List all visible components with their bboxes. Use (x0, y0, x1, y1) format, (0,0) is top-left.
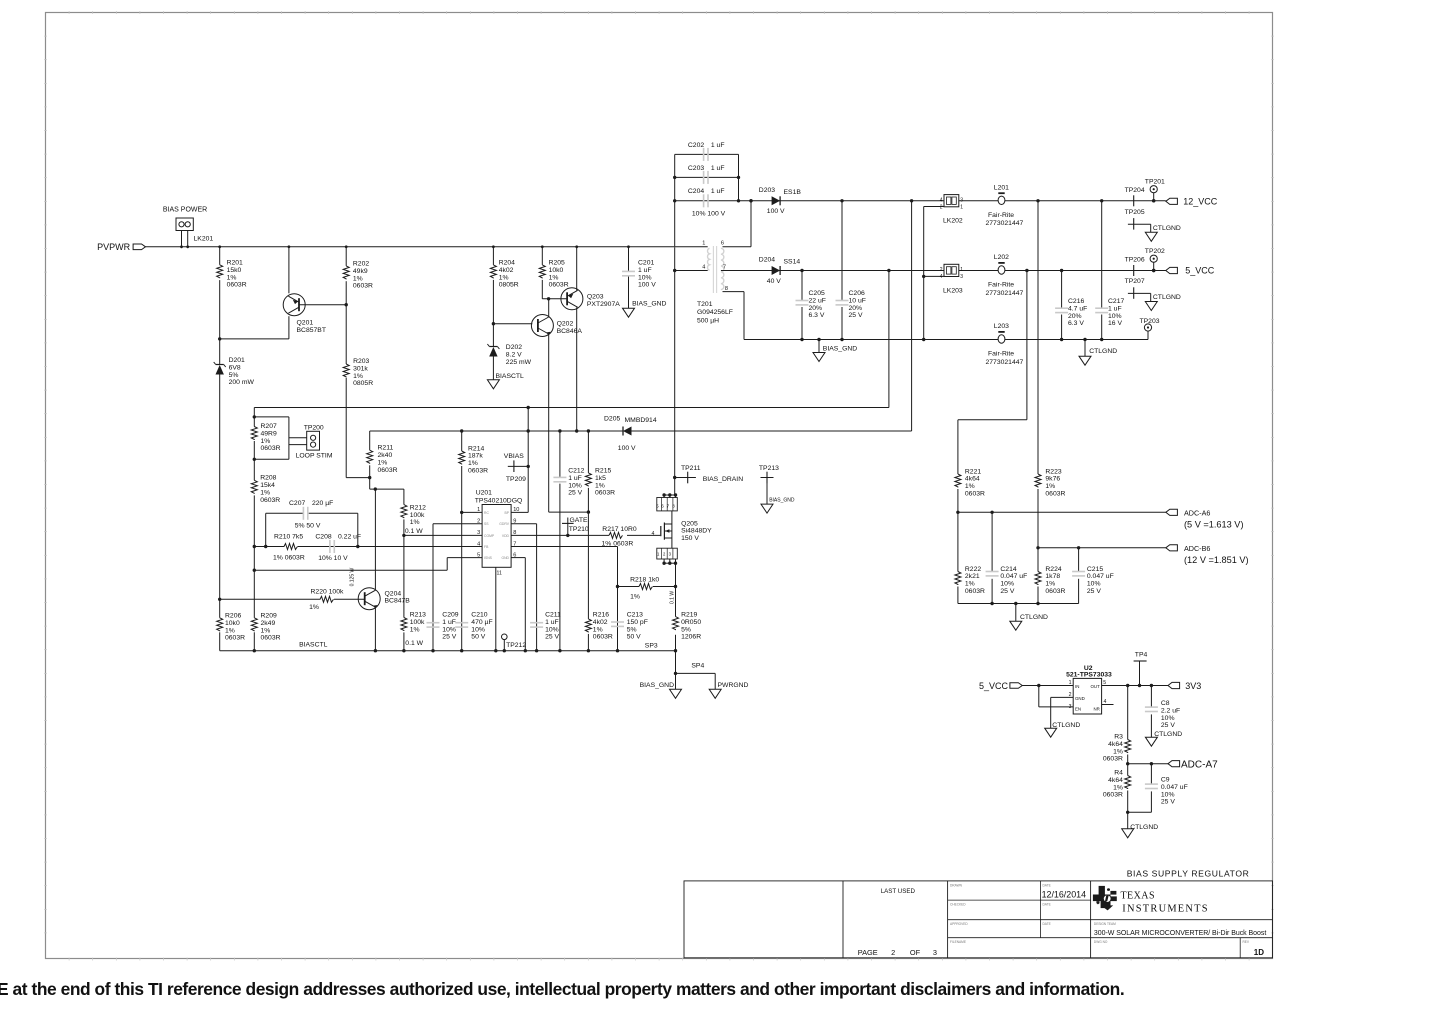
svg-text:LK202: LK202 (943, 217, 963, 224)
svg-text:1%: 1% (549, 274, 559, 281)
wire COMP row pin3 (402, 534, 482, 537)
capacitor C202 (675, 142, 739, 161)
logo Texas Instruments (1093, 886, 1209, 915)
capacitor C201 (622, 247, 656, 308)
svg-text:VBIAS: VBIAS (504, 453, 524, 460)
svg-text:2.2 uF: 2.2 uF (1161, 707, 1180, 714)
wire node R202-R203 column (345, 247, 348, 478)
svg-text:1: 1 (1069, 680, 1072, 686)
wire 12V sense column R223 (1037, 201, 1039, 474)
svg-text:C206: C206 (849, 290, 865, 297)
svg-text:Q201: Q201 (297, 320, 314, 327)
wire R203 to R211 bottom (346, 476, 371, 479)
svg-text:R3: R3 (1114, 734, 1123, 741)
svg-text:Fair-Rite: Fair-Rite (988, 350, 1014, 357)
svg-text:1: 1 (960, 204, 963, 210)
svg-text:0603R: 0603R (261, 635, 281, 642)
svg-text:DWG NO: DWG NO (1094, 940, 1108, 944)
svg-text:GND: GND (501, 556, 509, 560)
svg-text:R210 7k5: R210 7k5 (274, 534, 303, 541)
svg-text:BIASCTL: BIASCTL (496, 373, 525, 380)
svg-text:CHECKED: CHECKED (950, 903, 966, 907)
ground BIAS_GND at rail (813, 340, 857, 362)
svg-text:L201: L201 (994, 184, 1009, 191)
svg-text:220 µF: 220 µF (312, 500, 333, 507)
svg-text:R211: R211 (378, 445, 394, 452)
svg-text:2: 2 (940, 204, 943, 210)
svg-text:ES1B: ES1B (784, 189, 802, 196)
svg-text:TP200: TP200 (304, 424, 324, 431)
resistor R203 (343, 358, 373, 387)
resistor R220 (220, 567, 365, 611)
svg-text:0603R: 0603R (965, 491, 985, 498)
ground CTLGND at R4 (1122, 824, 1159, 838)
svg-text:0.1 W: 0.1 W (405, 640, 423, 647)
resistor R207 (251, 423, 280, 452)
resistor R204 (490, 260, 518, 289)
svg-text:0603R: 0603R (965, 588, 985, 595)
capacitor C213 (611, 612, 648, 641)
capacitor C209 (427, 612, 459, 641)
svg-text:CTLGND: CTLGND (1153, 294, 1181, 301)
svg-text:10k0: 10k0 (549, 267, 564, 274)
svg-text:10 uF: 10 uF (849, 297, 866, 304)
testpoint TP201 (1145, 179, 1165, 203)
svg-text:TP213: TP213 (759, 465, 779, 472)
svg-text:40 V: 40 V (767, 278, 781, 285)
svg-text:C217: C217 (1108, 298, 1124, 305)
svg-text:TP206: TP206 (1125, 256, 1145, 263)
svg-text:500 µH: 500 µH (697, 318, 719, 325)
wire U2 NR stub (1102, 704, 1114, 706)
svg-text:C9: C9 (1161, 777, 1170, 784)
svg-text:1 uF: 1 uF (711, 165, 725, 172)
transistor Q204 (358, 489, 410, 651)
svg-text:ADC-A6: ADC-A6 (1184, 508, 1210, 517)
svg-text:R206: R206 (225, 613, 241, 620)
svg-text:1%: 1% (309, 604, 319, 611)
svg-text:Fair-Rite: Fair-Rite (988, 281, 1014, 288)
wire ADC-A6 row (956, 511, 1166, 514)
svg-text:TP201: TP201 (1145, 179, 1165, 186)
svg-text:0603R: 0603R (595, 490, 615, 497)
svg-text:1D: 1D (1254, 948, 1264, 957)
testpoint TP209 VBIAS (504, 453, 528, 483)
svg-text:10%: 10% (638, 274, 652, 281)
svg-text:1k78: 1k78 (1045, 573, 1060, 580)
svg-text:521-TPS73033: 521-TPS73033 (1066, 672, 1112, 679)
svg-text:TEXAS: TEXAS (1121, 890, 1155, 901)
svg-text:R220 100k: R220 100k (311, 589, 344, 596)
svg-text:R204: R204 (499, 260, 515, 267)
svg-text:1%: 1% (595, 482, 605, 489)
inductor L203 (986, 323, 1024, 366)
svg-text:D205: D205 (604, 416, 620, 423)
resistor R209 (251, 613, 280, 642)
diode D203 (759, 187, 802, 215)
capacitor C214 (986, 512, 1028, 603)
svg-text:2773021447: 2773021447 (986, 359, 1024, 366)
svg-text:5: 5 (477, 552, 480, 558)
testpoint TP205 with CTLGND (1125, 209, 1181, 241)
svg-text:4k02: 4k02 (499, 267, 514, 274)
svg-text:R205: R205 (549, 260, 565, 267)
svg-text:3: 3 (960, 274, 963, 280)
svg-text:100 V: 100 V (618, 445, 636, 452)
svg-text:49R9: 49R9 (261, 430, 277, 437)
ground BIASCTL at D202 (487, 373, 524, 389)
svg-text:25 V: 25 V (442, 634, 456, 641)
svg-text:C209: C209 (442, 612, 458, 619)
svg-text:1%: 1% (630, 593, 640, 600)
capacitor C217 (1095, 201, 1124, 340)
svg-text:4k64: 4k64 (1108, 741, 1123, 748)
capacitor C211 (530, 612, 561, 641)
svg-text:TP209: TP209 (506, 476, 526, 483)
wire R211 bottom to R212 top (370, 478, 404, 491)
svg-text:10%: 10% (1108, 313, 1122, 320)
svg-text:2773021447: 2773021447 (986, 290, 1024, 297)
svg-text:10%: 10% (568, 482, 582, 489)
svg-text:C211: C211 (545, 612, 561, 619)
svg-text:0603R: 0603R (468, 468, 488, 475)
svg-text:1%: 1% (261, 627, 271, 634)
svg-text:R218 1k0: R218 1k0 (630, 576, 659, 583)
svg-text:12/16/2014: 12/16/2014 (1042, 890, 1086, 900)
svg-text:TP207: TP207 (1125, 278, 1145, 285)
svg-text:6V8: 6V8 (229, 364, 241, 371)
svg-text:10%: 10% (1000, 581, 1014, 588)
svg-text:C203: C203 (688, 165, 704, 172)
svg-text:C201: C201 (638, 260, 654, 267)
svg-text:0.1 W: 0.1 W (405, 528, 423, 535)
ground CTLGND at U2 (1045, 722, 1081, 737)
svg-text:0.047 uF: 0.047 uF (1000, 573, 1027, 580)
svg-text:10%: 10% (1161, 715, 1175, 722)
svg-text:25 V: 25 V (1000, 588, 1014, 595)
resistor R224 (1035, 548, 1066, 604)
svg-text:0.22 uF: 0.22 uF (338, 534, 361, 541)
connector ADC-B6 (1166, 544, 1249, 565)
capacitor C205 (796, 271, 826, 340)
svg-text:1 uF: 1 uF (711, 188, 725, 195)
svg-text:R224: R224 (1045, 566, 1061, 573)
svg-text:R203: R203 (353, 358, 369, 365)
svg-text:DRAWN: DRAWN (950, 884, 963, 888)
svg-text:1206R: 1206R (681, 634, 701, 641)
inductor L201 (986, 184, 1024, 227)
svg-text:1: 1 (702, 241, 705, 247)
svg-text:4: 4 (702, 264, 705, 270)
svg-text:5_VCC: 5_VCC (979, 681, 1009, 691)
wire 12V rail (739, 199, 1166, 202)
svg-text:TP4: TP4 (1135, 652, 1148, 659)
svg-text:12_VCC: 12_VCC (1183, 196, 1218, 206)
svg-text:1%: 1% (225, 627, 235, 634)
inductor L202 (986, 254, 1024, 297)
svg-text:20%: 20% (1068, 313, 1082, 320)
svg-text:1 uF: 1 uF (442, 619, 456, 626)
svg-text:G094256LF: G094256LF (697, 309, 733, 316)
wire LK202 pin2 to ground column (922, 207, 944, 342)
svg-text:VDD: VDD (502, 534, 510, 538)
wire BIAS_GND rail (744, 338, 1148, 341)
svg-text:R4: R4 (1114, 770, 1123, 777)
svg-text:OF: OF (910, 948, 921, 957)
wire U2 GND to CTLGND (1051, 697, 1074, 728)
resistor R216 (585, 512, 613, 651)
svg-text:3: 3 (477, 530, 480, 536)
capacitor C215 (1072, 548, 1114, 604)
svg-text:D202: D202 (506, 344, 522, 351)
svg-text:BC847B: BC847B (385, 598, 411, 605)
wire node R205 column (541, 247, 543, 299)
wire pin7 row C213 column (511, 547, 619, 651)
transistor Q205 Si4848DY (652, 493, 713, 565)
resistor R208 (251, 475, 280, 504)
wire BIASCTL rail (220, 641, 676, 652)
svg-text:INSTRUMENTS: INSTRUMENTS (1122, 904, 1209, 915)
svg-text:4k02: 4k02 (593, 619, 608, 626)
connector LK203 (940, 264, 964, 294)
wire pin8 GDRV row (511, 534, 660, 537)
svg-text:50 V: 50 V (627, 634, 641, 641)
svg-text:PWRGND: PWRGND (718, 682, 749, 689)
svg-text:50 V: 50 V (471, 634, 485, 641)
svg-text:CTLGND: CTLGND (1130, 824, 1158, 831)
wire BIAS_DRAIN column (673, 271, 676, 496)
svg-text:0603R: 0603R (353, 283, 373, 290)
svg-text:25 V: 25 V (1087, 588, 1101, 595)
resistor R4 (1103, 764, 1131, 813)
svg-text:100k: 100k (410, 619, 425, 626)
svg-text:R214: R214 (468, 445, 484, 452)
svg-text:1%: 1% (1113, 784, 1123, 791)
ground CTLGND at C8 (1145, 731, 1182, 746)
testpoint TP210 GATE (562, 517, 589, 536)
svg-text:470 µF: 470 µF (471, 619, 492, 626)
wire PVPWR main bus (146, 245, 708, 248)
svg-text:25 V: 25 V (1161, 799, 1175, 806)
svg-text:3: 3 (933, 948, 937, 957)
testpoint TP4 (1134, 652, 1148, 686)
transformer T201 (697, 241, 733, 325)
resistor R223 (1035, 468, 1066, 548)
svg-text:NR: NR (1093, 706, 1099, 711)
resistor R221 (955, 468, 985, 512)
svg-text:OUT: OUT (1091, 684, 1101, 689)
capacitor C8 (1145, 686, 1180, 738)
svg-text:6.3 V: 6.3 V (809, 312, 825, 319)
svg-text:R221: R221 (965, 468, 981, 475)
capacitor C210 (455, 612, 492, 641)
wire 12V to D205 row column (911, 201, 913, 431)
svg-text:11: 11 (497, 571, 502, 577)
resistor R215 (585, 431, 615, 512)
wire node R201-D201 column (218, 247, 221, 651)
svg-text:3: 3 (960, 197, 963, 203)
svg-text:D204: D204 (759, 257, 775, 264)
svg-text:C208: C208 (315, 534, 331, 541)
svg-text:10% 10 V: 10% 10 V (318, 555, 348, 562)
svg-text:0.047 uF: 0.047 uF (1161, 784, 1188, 791)
svg-text:1% 0603R: 1% 0603R (273, 554, 305, 561)
connector PVPWR (97, 242, 145, 252)
testpoint TP213 BIAS_GND (759, 465, 795, 513)
svg-text:1%: 1% (353, 373, 363, 380)
svg-text:BC857BT: BC857BT (297, 327, 326, 334)
svg-text:100k: 100k (410, 512, 425, 519)
svg-text:150 pF: 150 pF (627, 619, 648, 626)
ground PWRGND at SP4 (709, 682, 748, 698)
svg-text:R216: R216 (593, 612, 609, 619)
wire pin11 stub (495, 567, 497, 650)
connector ADC-A6 (1166, 508, 1244, 529)
svg-text:LK203: LK203 (943, 287, 963, 294)
svg-text:4k64: 4k64 (965, 476, 980, 483)
svg-text:RC: RC (484, 511, 489, 515)
svg-text:1%: 1% (1113, 748, 1123, 755)
svg-text:150 V: 150 V (681, 535, 699, 542)
svg-text:0.047 uF: 0.047 uF (1087, 573, 1114, 580)
svg-text:0805R: 0805R (353, 380, 373, 387)
svg-text:225 mW: 225 mW (506, 359, 532, 366)
resistor R201 (217, 260, 247, 289)
connector LK201 BIAS POWER (163, 207, 213, 247)
testpoint TP212 (502, 634, 527, 651)
svg-text:1%: 1% (965, 581, 975, 588)
svg-text:0603R: 0603R (1103, 756, 1123, 763)
svg-text:TP210: TP210 (569, 526, 589, 533)
svg-text:5% 50 V: 5% 50 V (295, 522, 321, 529)
svg-text:TP211: TP211 (681, 465, 701, 472)
svg-text:ADC-B6: ADC-B6 (1184, 544, 1210, 553)
svg-text:C216: C216 (1068, 298, 1084, 305)
svg-text:SS14: SS14 (784, 258, 801, 265)
connector 12_VCC (1166, 196, 1218, 206)
wire C212 column (559, 431, 561, 651)
wire Q203 base net (542, 297, 567, 300)
svg-text:0603R: 0603R (378, 467, 398, 474)
svg-text:C214: C214 (1000, 566, 1016, 573)
transistor Q202 (531, 299, 582, 337)
svg-text:CTLGND: CTLGND (1089, 348, 1117, 355)
resistor R210 (273, 534, 305, 562)
svg-text:IN: IN (1075, 684, 1079, 689)
svg-text:CTLGND: CTLGND (1153, 225, 1181, 232)
svg-text:DATE: DATE (1043, 884, 1051, 888)
svg-text:0R050: 0R050 (681, 619, 701, 626)
title BIAS SUPPLY REGULATOR (1127, 869, 1250, 879)
svg-text:GDRV: GDRV (499, 522, 509, 526)
svg-text:L203: L203 (994, 323, 1009, 330)
svg-text:1k5: 1k5 (595, 475, 606, 482)
svg-text:0603R: 0603R (227, 282, 247, 289)
wire capacitor stack right column (737, 154, 740, 202)
wire 5_VCC to U2 (1022, 684, 1073, 687)
svg-text:10%: 10% (1087, 581, 1101, 588)
title block table (684, 881, 1273, 958)
wire CTLGND rail ADC (958, 602, 1079, 605)
svg-text:8.2 V: 8.2 V (506, 351, 522, 358)
svg-text:1%: 1% (410, 519, 420, 526)
svg-text:1%: 1% (1045, 483, 1055, 490)
svg-text:1%: 1% (353, 275, 363, 282)
svg-text:0603R: 0603R (225, 635, 245, 642)
svg-text:D203: D203 (759, 187, 775, 194)
svg-text:10%: 10% (471, 626, 485, 633)
svg-text:BIAS_GND: BIAS_GND (640, 682, 674, 689)
testpoint TP207 with CTLGND (1125, 278, 1181, 310)
svg-text:2k21: 2k21 (965, 573, 980, 580)
resistor R202 (343, 261, 373, 290)
resistor R205 (539, 260, 568, 289)
svg-text:1 uF: 1 uF (1108, 305, 1122, 312)
svg-text:10%: 10% (545, 626, 559, 633)
svg-text:Q204: Q204 (385, 590, 402, 597)
svg-text:PVPWR: PVPWR (97, 242, 131, 252)
svg-text:301k: 301k (353, 365, 368, 372)
wire Q202 base (493, 323, 532, 325)
connector TP200 LOOP STIM (296, 424, 333, 459)
svg-text:10% 100 V: 10% 100 V (692, 211, 726, 218)
svg-text:BC846A: BC846A (557, 328, 583, 335)
svg-text:Q202: Q202 (557, 321, 574, 328)
wire D205 row y431 (370, 429, 912, 432)
svg-text:1 uF: 1 uF (545, 619, 559, 626)
svg-text:BIAS POWER: BIAS POWER (163, 207, 207, 214)
svg-text:25 V: 25 V (849, 312, 863, 319)
svg-text:(12 V =1.851 V): (12 V =1.851 V) (1184, 555, 1249, 565)
svg-text:1%: 1% (593, 626, 603, 633)
svg-text:CTLGND: CTLGND (1154, 731, 1182, 738)
svg-text:Q205: Q205 (681, 520, 698, 527)
svg-text:TPS40210DGQ: TPS40210DGQ (475, 498, 523, 505)
wire ADC-B6 row (1036, 546, 1166, 549)
wire pin1 row R214 (460, 511, 482, 514)
svg-text:TP212: TP212 (506, 642, 526, 649)
svg-text:1%: 1% (499, 274, 509, 281)
svg-text:6: 6 (721, 241, 724, 247)
svg-text:300-W SOLAR MICROCONVERTER/ Bi: 300-W SOLAR MICROCONVERTER/ Bi-Dir Buck … (1094, 930, 1266, 937)
wire R4 C9 bottom tie (1126, 811, 1151, 829)
svg-text:E at the end of this TI refere: E at the end of this TI reference design… (0, 979, 1124, 999)
wire node bus left column (253, 408, 256, 651)
capacitor C207 (266, 500, 358, 547)
svg-text:1 uF: 1 uF (638, 267, 652, 274)
wire T201 pin6 to 12V rail (723, 199, 753, 247)
wire 5V sense feed (958, 271, 1027, 475)
svg-text:7: 7 (723, 264, 726, 270)
svg-text:D201: D201 (229, 357, 245, 364)
resistor R217 (602, 526, 637, 547)
svg-text:15k4: 15k4 (260, 482, 275, 489)
svg-text:R213: R213 (410, 612, 426, 619)
ground CTLGND at ADC rail (1010, 604, 1048, 631)
capacitor C9 (1145, 764, 1188, 813)
svg-text:25 V: 25 V (568, 490, 582, 497)
wire node R204-D202 column (492, 247, 495, 380)
svg-text:5%: 5% (229, 372, 239, 379)
svg-text:20%: 20% (849, 305, 863, 312)
svg-text:ADC-A7: ADC-A7 (1181, 759, 1218, 770)
svg-text:15k0: 15k0 (227, 267, 242, 274)
wire ADC-A7 row (1126, 762, 1168, 765)
svg-text:C207: C207 (289, 500, 305, 507)
capacitor C204 (675, 188, 739, 217)
svg-text:R207: R207 (261, 423, 277, 430)
svg-text:COMP: COMP (484, 534, 495, 538)
